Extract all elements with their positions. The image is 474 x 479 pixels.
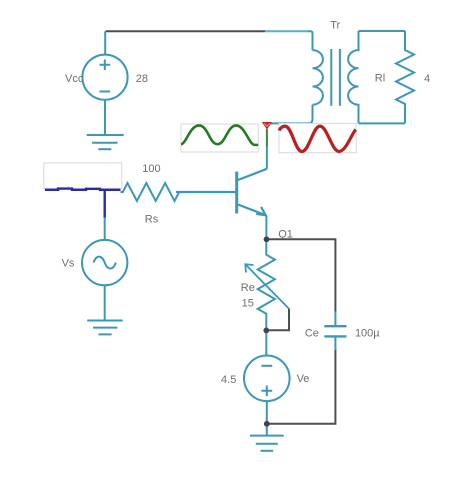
scope window red (279, 123, 356, 152)
base wire (176, 191, 236, 193)
transformer Tr primary winding (313, 50, 323, 120)
resistor Rs (121, 183, 237, 201)
node Re bottom junction dot (263, 328, 269, 334)
wire node to Vs (navy highlighted) (103, 190, 105, 218)
scope window blue (input) (44, 163, 122, 189)
svg-text:28: 28 (136, 73, 148, 85)
emitter lead (265, 216, 267, 237)
svg-text:Vs: Vs (62, 258, 75, 270)
node Ve bottom junction dot (264, 421, 270, 427)
svg-text:15: 15 (242, 297, 254, 309)
wire Ce bottom to Ve bottom node (gray) (270, 350, 336, 424)
svg-text:Ve: Ve (297, 373, 310, 385)
scope window green (181, 124, 258, 152)
svg-text:4: 4 (424, 73, 430, 85)
waveform red sine (279, 126, 356, 151)
transformer Tr core (331, 49, 340, 106)
emitter arrowhead (256, 207, 265, 215)
variable resistor Re (258, 242, 275, 330)
wire secondary bottom to Rl (359, 122, 406, 124)
svg-text:Tr: Tr (330, 20, 340, 32)
node Q1 junction dot (264, 236, 270, 242)
wire Q1 node to Ce (gray) (269, 239, 335, 311)
voltage source Vs (AC) (82, 218, 127, 321)
voltage source Vcc (82, 31, 127, 135)
resistor Rl (396, 31, 414, 123)
svg-text:4.5: 4.5 (221, 374, 236, 386)
waveform green sine (181, 125, 258, 145)
wire transformer primary top lead (teal) (265, 30, 308, 32)
wire Re wiper to bottom node (gray) (269, 309, 289, 331)
wire secondary top to Rl (359, 30, 406, 32)
svg-text:Re: Re (241, 282, 255, 294)
ground for Vs (87, 321, 123, 335)
emitter diagonal (238, 205, 267, 216)
wire Vcc top to transformer (gray net) (106, 30, 266, 32)
svg-text:Rl: Rl (375, 73, 385, 85)
capacitor Ce (324, 312, 346, 350)
voltage source Ve (244, 333, 290, 421)
transistor Q1 (176, 169, 267, 237)
svg-text:Ce: Ce (305, 328, 319, 340)
ground at bottom (250, 427, 284, 451)
wire transformer primary bottom to collector node (267, 119, 313, 123)
wire collector node green segment (266, 129, 268, 147)
svg-text:Rs: Rs (145, 213, 159, 225)
collector diagonal (238, 169, 267, 180)
transformer Tr secondary winding (348, 31, 358, 123)
svg-text:100µ: 100µ (355, 328, 380, 340)
probe marker (red) at collector node (262, 122, 272, 130)
ground for Vcc (87, 135, 124, 149)
Re wiper arrow (245, 264, 289, 309)
svg-text:100: 100 (142, 163, 160, 175)
wire collector vertical (266, 147, 268, 169)
svg-text:Vcc: Vcc (65, 73, 84, 85)
base bar (235, 172, 238, 214)
waveform blue flat trace (45, 189, 121, 190)
